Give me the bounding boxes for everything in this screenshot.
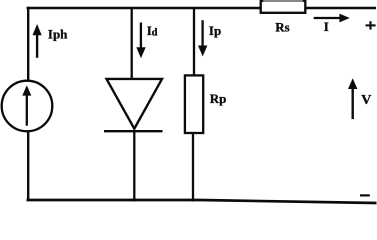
wire Rp top (top node down to Rp) [193,8,195,76]
wire diode cathode (diode to bottom rail) [133,131,135,202]
wire Rp bottom (Rp to bottom rail) [192,133,194,202]
resistor Rp (shunt resistor box) [185,75,203,133]
svg-text:Rp: Rp [210,91,227,106]
wire diode anode (top node down to diode) [131,8,133,79]
arrow Id (diode current direction) [136,23,145,59]
label Id [147,23,158,38]
svg-text:d: d [152,27,158,38]
diode D (Id branch) [104,79,163,131]
current source Iph (circle symbol) [2,81,53,132]
resistor Rs (series resistor box) [261,0,306,13]
arrow Ip (shunt current direction) [198,20,207,56]
svg-text:Rs: Rs [275,19,289,34]
label I [324,19,329,34]
svg-text:Ip: Ip [209,23,221,38]
arrow V (output voltage direction) [348,78,357,119]
label Ip [209,23,221,38]
svg-text:V: V [361,93,371,108]
label V [361,93,371,108]
label Iph [48,26,68,41]
wire bottom (return rail to - terminal) [27,200,377,203]
label Rs [275,19,289,34]
terminal + (positive output) [366,21,376,29]
svg-text:Iph: Iph [48,26,68,41]
arrow I (output current direction) [314,14,350,23]
wire left vertical (photocurrent branch) [27,7,29,201]
wire top-right segment (Rs to + terminal) [305,7,376,9]
wire top-left segment (node A: from left branch to Rs) [27,7,262,9]
svg-text:I: I [324,19,329,34]
terminal - (negative output) [360,194,370,196]
label Rp [210,91,227,106]
arrow Iph (photocurrent direction) [33,24,42,58]
